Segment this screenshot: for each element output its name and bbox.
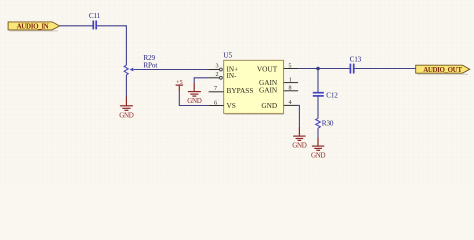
- wire junction down to C12: [317, 69, 319, 93]
- pin 4 GND: [284, 99, 299, 106]
- svg-text:RPot: RPot: [143, 62, 157, 70]
- svg-text:8: 8: [288, 84, 291, 91]
- svg-text:GND: GND: [292, 141, 307, 149]
- wire pin 4 to ground: [298, 105, 299, 127]
- svg-text:C13: C13: [350, 56, 362, 64]
- wire +5 to pin 6: [179, 91, 208, 106]
- svg-text:C12: C12: [326, 92, 338, 100]
- pin 6 VS: [209, 100, 224, 107]
- svg-text:GND: GND: [119, 111, 134, 119]
- pin 8 GAIN: [284, 84, 299, 91]
- pin 2 IN-: [209, 71, 223, 79]
- svg-text:7: 7: [214, 85, 217, 92]
- svg-text:C11: C11: [89, 12, 101, 20]
- junction VOUT node: [316, 67, 320, 71]
- svg-text:4: 4: [288, 99, 291, 106]
- wire AUDIO_IN to C11: [60, 25, 93, 27]
- wire C11 to corner and down to pot: [97, 26, 127, 65]
- potentiometer R29 RPot: [124, 54, 157, 75]
- pin 5 VOUT: [284, 62, 299, 69]
- ground below pot: [119, 97, 134, 120]
- svg-text:GAIN: GAIN: [259, 86, 278, 95]
- svg-text:VOUT: VOUT: [257, 65, 278, 74]
- ground at pin 4: [292, 127, 307, 149]
- ground below R30: [311, 137, 326, 159]
- svg-text:BYPASS: BYPASS: [227, 86, 254, 95]
- wire pot bottom to ground: [125, 75, 127, 97]
- wire pot wiper to pin 3: [134, 69, 209, 71]
- svg-text:U5: U5: [223, 52, 232, 60]
- svg-text:R30: R30: [322, 120, 334, 128]
- svg-text:GND: GND: [187, 97, 202, 105]
- pin 3 IN+: [209, 63, 223, 71]
- ground at IN-: [187, 83, 202, 105]
- svg-text:1: 1: [289, 76, 292, 83]
- svg-text:GND: GND: [311, 151, 326, 159]
- wire VOUT net: [298, 68, 350, 70]
- capacitor C13: [350, 56, 362, 74]
- resistor R30: [316, 118, 334, 128]
- svg-text:VS: VS: [227, 101, 236, 110]
- port AUDIO_IN: [8, 22, 59, 31]
- pin 1 GAIN: [284, 76, 299, 83]
- op-amp U5 body: [223, 52, 284, 115]
- svg-text:AUDIO_IN: AUDIO_IN: [17, 22, 49, 30]
- svg-text:IN-: IN-: [227, 72, 238, 80]
- wire IN- to ground branch: [194, 78, 208, 83]
- svg-text:AUDIO_OUT: AUDIO_OUT: [423, 66, 462, 74]
- svg-text:GND: GND: [261, 101, 277, 110]
- svg-text:6: 6: [214, 100, 217, 107]
- svg-text:3: 3: [215, 63, 218, 70]
- wire C13 to AUDIO_OUT: [354, 68, 415, 70]
- capacitor C11: [89, 12, 101, 30]
- pin 7 BYPASS: [209, 85, 224, 92]
- wire C12 to R30: [317, 96, 319, 118]
- power +5: [176, 79, 184, 91]
- wire R30 to ground: [317, 128, 319, 137]
- port AUDIO_OUT: [416, 65, 470, 74]
- capacitor C12: [313, 92, 338, 100]
- svg-text:2: 2: [215, 71, 218, 78]
- svg-text:5: 5: [288, 62, 291, 69]
